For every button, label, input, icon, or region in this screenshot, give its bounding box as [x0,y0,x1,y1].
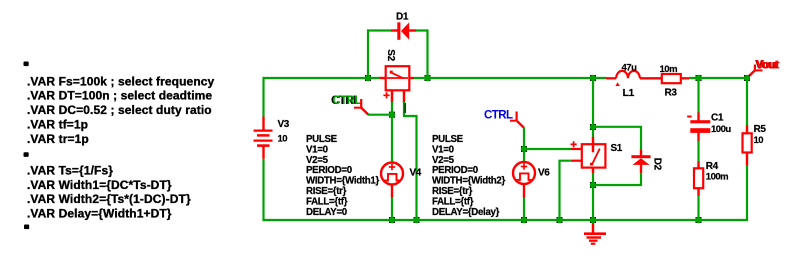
wire S1 bottom [592,173,594,221]
wire D1 right [416,31,428,79]
svg-text:FALL={tf}: FALL={tf} [306,197,348,208]
svg-text:V2=5: V2=5 [306,155,329,166]
wire D2 top [593,127,641,150]
label R3 value 10m [660,64,678,99]
svg-text:.VAR tr=1p: .VAR tr=1p [27,132,89,146]
resistor R5 [743,125,752,165]
wire C1 branch top [697,78,699,113]
wire D1 left [368,31,391,79]
switch S2 [380,66,414,102]
svg-text:.VAR Delay={Width1+DT}: .VAR Delay={Width1+DT} [27,206,172,220]
svg-text:DELAY=0: DELAY=0 [306,207,347,218]
ground [584,221,606,244]
svg-text:D1: D1 [396,11,409,22]
svg-text:.VAR Width1={DC*Ts-DT}: .VAR Width1={DC*Ts-DT} [27,178,172,192]
svg-text:10: 10 [278,134,288,145]
net label Vout [748,60,780,78]
switch S1 [571,137,606,173]
svg-text:PERIOD=0: PERIOD=0 [306,165,352,176]
text directives block 2 [24,152,191,229]
svg-text:S2: S2 [385,49,396,61]
svg-text:.VAR tf=1p: .VAR tf=1p [27,117,88,131]
svg-text:10m: 10m [660,64,678,75]
diode D1 [391,22,416,40]
svg-text:L1: L1 [623,87,635,99]
svg-text:V1=0: V1=0 [432,144,454,155]
wire top bus left [264,78,380,117]
wire CTRL2 to V6 [523,128,525,163]
svg-text:V4: V4 [410,167,422,178]
svg-text:CTRL: CTRL [333,95,362,107]
wire V4 bottom [391,198,393,222]
svg-text:R3: R3 [665,87,678,98]
text PULSE V4 [306,134,379,218]
svg-text:V1=0: V1=0 [306,144,328,155]
label L1 value 47u [622,63,638,100]
wire CTRL to S2 [368,114,392,116]
svg-text:RISE={tr}: RISE={tr} [306,186,347,197]
wire bottom bus [263,219,749,221]
svg-text:.VAR DC=0.52 ; select duty rat: .VAR DC=0.52 ; select duty ratio [27,103,212,117]
wire V3 bottom [262,159,264,221]
svg-text:100m: 100m [706,172,728,183]
net label CTRL node A [331,95,369,115]
svg-text:100u: 100u [711,124,731,135]
svg-text:FALL={tf}: FALL={tf} [432,197,474,208]
pin shade S2 [405,103,406,113]
svg-text:PULSE: PULSE [432,134,464,145]
wire R4 bottom [697,196,699,221]
svg-text:.VAR DT=100n ; select deadtime: .VAR DT=100n ; select deadtime [27,89,212,103]
text PULSE V6 [432,134,505,218]
diode D2 [631,150,650,173]
source V4 [381,163,403,198]
svg-text:D2: D2 [651,158,662,171]
svg-text:PULSE: PULSE [306,134,338,145]
wire R5 branch [746,78,748,126]
svg-text:10: 10 [754,135,764,146]
wire S1 ctrl minus [560,161,571,221]
svg-text:R4: R4 [706,161,719,172]
label V3 value 10 [278,119,290,145]
svg-text:.VAR Fs=100k ; select frequenc: .VAR Fs=100k ; select frequency [27,74,215,88]
svg-text:V3: V3 [278,119,290,130]
svg-text:.VAR Ts={1/Fs}: .VAR Ts={1/Fs} [27,164,113,178]
svg-text:WIDTH={Width2}: WIDTH={Width2} [432,176,505,187]
label R5 value 10 [754,124,767,146]
wire S2 ctrl minus [404,102,417,221]
source V6 [513,162,535,198]
svg-text:RISE={tr}: RISE={tr} [432,186,473,197]
wire D2 bottom [593,173,641,185]
resistor R4 [694,161,703,196]
svg-text:V6: V6 [538,167,550,178]
wire switch node down [592,78,594,138]
wire R5 bottom [746,165,748,221]
label R4 value 100m [706,161,728,183]
svg-text:R5: R5 [754,124,767,135]
svg-text:CTRL: CTRL [484,109,513,121]
battery V3 [254,117,273,159]
svg-text:S1: S1 [611,143,623,154]
svg-text:DELAY={Delay}: DELAY={Delay} [432,207,500,218]
text directives block 1 [24,62,215,146]
capacitor C1 [687,112,710,141]
inductor L1 [606,71,662,86]
svg-text:47u: 47u [622,63,638,74]
svg-text:.VAR Width2={Ts*(1-DC)-DT}: .VAR Width2={Ts*(1-DC)-DT} [27,192,191,206]
wire S2 ctrl plus [391,102,393,163]
wire R3 to output [689,77,748,79]
svg-text:V2=5: V2=5 [432,155,455,166]
wire C1 to R4 [697,141,699,162]
net label CTRL node B [484,109,524,127]
svg-text:C1: C1 [711,113,724,124]
wire V6 bottom [523,198,525,222]
label C1 value 100u [711,113,731,136]
wire V6 to S1 ctrl [524,148,571,150]
wire S2 out [414,77,607,79]
svg-text:WIDTH={Width1}: WIDTH={Width1} [306,176,379,187]
svg-text:PERIOD=0: PERIOD=0 [432,165,478,176]
resistor R3 [662,74,690,83]
